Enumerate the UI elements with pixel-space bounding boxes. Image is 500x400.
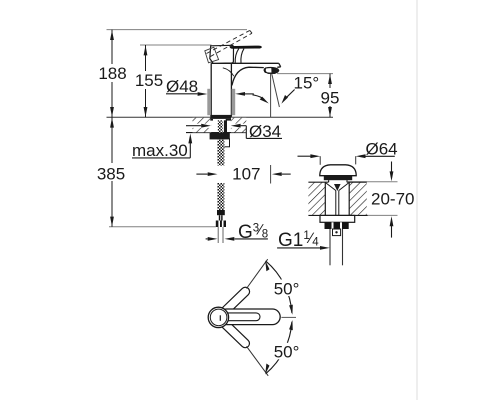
shank through counter [218, 120, 223, 132]
ferrule [217, 210, 225, 215]
upper tilted handle [220, 285, 252, 316]
base gray bands (O48) [207, 89, 211, 115]
upper 50 arc [266, 261, 292, 313]
drain internal funnel [326, 183, 336, 191]
small fitting right of shank [223, 139, 230, 147]
white channel for O34 dim [186, 124, 211, 128]
lever handle (rest) [230, 46, 262, 49]
cap neck [328, 180, 330, 182]
braided hose [217, 183, 224, 210]
threaded shank [217, 139, 224, 165]
pop-up rod clamp [333, 229, 341, 236]
svg-text:107: 107 [232, 164, 260, 183]
dim 155 [145, 45, 147, 117]
drain flange [320, 215, 355, 222]
dim 188 [111, 30, 113, 118]
hose neck [219, 215, 223, 220]
cartridge block [210, 45, 234, 63]
dim 20-70 [391, 162, 393, 173]
countertop hatch left block [193, 118, 212, 133]
handle pointing right [219, 309, 280, 325]
svg-text:385: 385 [97, 164, 125, 183]
aerator pod [264, 68, 278, 74]
basin bottom line [308, 214, 367, 216]
hose end extension line (385) [109, 226, 216, 228]
lock nut below counter [210, 133, 230, 140]
svg-text:20-70: 20-70 [371, 189, 414, 208]
centerline right [281, 316, 296, 318]
basin top lines [308, 181, 328, 183]
label 50 lower [274, 343, 301, 360]
svg-text:95: 95 [321, 88, 340, 107]
svg-text:155: 155 [135, 71, 163, 90]
countertop hatch right block [231, 118, 246, 133]
extension line (155, lever top) [140, 44, 212, 46]
dim 385 [111, 117, 113, 227]
countertop top surface line [107, 116, 334, 118]
faucet body [211, 63, 281, 117]
lever neck curves [235, 49, 239, 63]
upper leader line [247, 259, 268, 288]
dim 95 [329, 74, 331, 118]
G3/8 nipple [218, 227, 223, 243]
svg-text:max.30: max.30 [132, 141, 188, 160]
raised lever (dashed) [207, 30, 253, 56]
lower leader line [247, 346, 269, 376]
spout tip extension line (95) [277, 73, 333, 75]
hose hex nut [216, 221, 226, 228]
label 50 upper [274, 280, 301, 297]
label O34 [186, 125, 201, 127]
svg-text:50°: 50° [274, 279, 300, 298]
svg-text:188: 188 [98, 64, 126, 83]
basin surface line (right extension) [346, 181, 398, 183]
15 deg arc arrows [253, 95, 265, 100]
basin hatch right block [349, 182, 367, 215]
svg-text:50°: 50° [274, 343, 300, 362]
base plate at counter [210, 115, 231, 119]
dim 107 [196, 173, 207, 175]
drain tube walls [324, 182, 326, 215]
lower tilted handle [219, 318, 251, 349]
svg-text:15°: 15° [294, 73, 320, 92]
basin hatch left block [308, 182, 325, 215]
drain nut [325, 222, 349, 229]
body circle [208, 307, 228, 327]
svg-text:Ø34: Ø34 [249, 122, 281, 141]
15 degree jet lines [270, 74, 272, 117]
tailpipe [329, 229, 331, 265]
block sketch outline left [205, 47, 219, 63]
page divider line [416, 0, 418, 400]
lower 50 arc [266, 322, 292, 374]
pull rod through counter [224, 120, 227, 132]
extension line top (188, raised lever tip) [107, 29, 248, 31]
countertop bottom line [186, 132, 246, 134]
drain cap dome [320, 165, 356, 176]
